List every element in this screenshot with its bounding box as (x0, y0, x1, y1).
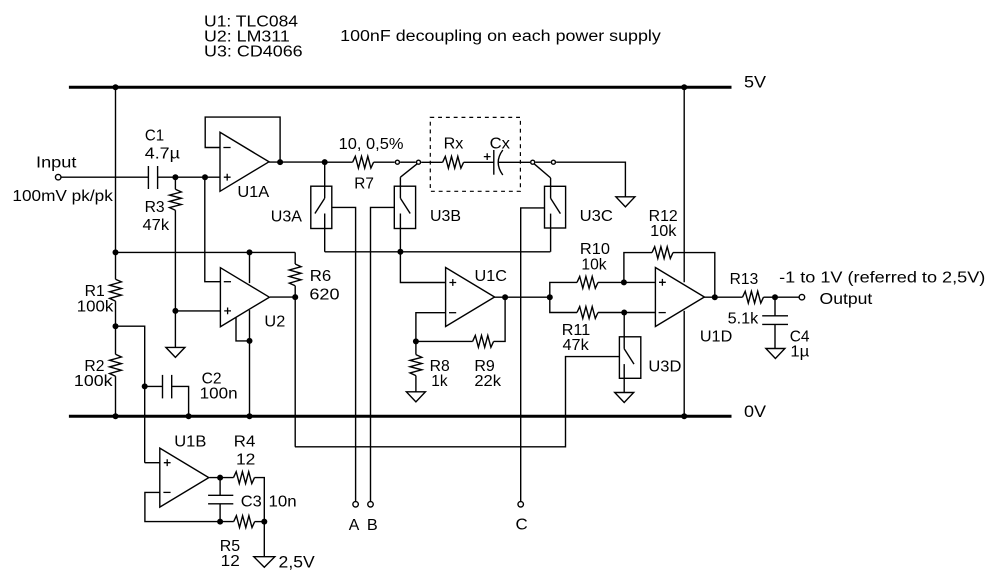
label R4 (234, 433, 256, 450)
label R3 (145, 199, 165, 216)
wire U2- to input node (205, 177, 221, 282)
svg-text:R4: R4 (234, 433, 256, 450)
resistor R11 (550, 297, 656, 318)
junction U1A+/U2- (202, 174, 208, 180)
svg-text:Output: Output (820, 291, 874, 308)
wire U1B- feedback (145, 492, 234, 521)
label Cx (490, 135, 511, 152)
label C2 (202, 370, 222, 387)
label terminal B (367, 517, 378, 534)
capacitor C2 (163, 375, 172, 399)
op-amp U1A (220, 132, 269, 191)
label R13 value 5.1k (728, 310, 759, 327)
svg-text:C: C (516, 517, 528, 534)
svg-text:U3A: U3A (271, 208, 303, 225)
resistor R12 (624, 247, 715, 298)
switch arm to U3B (400, 164, 417, 187)
label R1 value 100k (77, 298, 114, 315)
wire C2 right to 0V (172, 386, 189, 416)
wire U1B output (210, 477, 234, 479)
junction U2 out/R6 (292, 294, 298, 300)
wire R11 node to U3D (623, 313, 625, 337)
junction C2 tap (142, 383, 148, 389)
junction R10/R12 (621, 279, 627, 285)
wire Rx to Cx (464, 161, 494, 163)
wire R1 to R2 (115, 301, 117, 354)
svg-text:U2: U2 (264, 314, 285, 331)
resistor R4 (234, 472, 265, 522)
terminal B (368, 502, 374, 508)
resistor R3 (170, 177, 182, 210)
wire U1D power top (683, 89, 685, 283)
wire U2 power pin top (249, 252, 251, 283)
label U2 (264, 314, 285, 331)
label U3D (648, 358, 681, 375)
resistor R5 (234, 516, 265, 528)
wire U1C- branch (416, 313, 446, 342)
label U1A (237, 184, 270, 201)
junction divider/2.5V net row (113, 249, 119, 255)
label R13 (730, 271, 759, 288)
junction U1D power/0V (681, 413, 687, 419)
label U3 type (204, 44, 303, 61)
junction R3/U2+ (172, 308, 178, 314)
ground right of Cx (616, 197, 635, 207)
wire midpoint to C2/U1B (116, 326, 145, 463)
ground below C4 (766, 349, 785, 359)
svg-text:U3: CD4066: U3: CD4066 (204, 44, 303, 61)
analog switch U3C (545, 186, 566, 228)
contact circle left B (417, 160, 421, 164)
0V power rail (69, 415, 732, 418)
svg-text:R6: R6 (310, 268, 331, 285)
wire 2.5V to U1B+ (145, 462, 160, 464)
junction C2/0V (186, 413, 192, 419)
wire U3C control to C line (521, 208, 545, 501)
label net 5V (744, 72, 767, 91)
svg-text:B: B (367, 517, 378, 534)
wire U3D to ground (623, 378, 625, 392)
label input level 100mV pk/pk (12, 188, 113, 205)
svg-text:U3C: U3C (580, 208, 613, 225)
label U1C (475, 268, 507, 285)
contact circle right A (531, 160, 535, 164)
label R8 (430, 358, 450, 375)
junction U1A out/U3A (322, 159, 328, 165)
wire C1 to node (158, 176, 176, 178)
label R2 (84, 358, 104, 375)
resistor R1 (110, 279, 122, 301)
label Rx (444, 135, 464, 152)
note decoupling (340, 28, 661, 45)
wire U1C output (494, 296, 549, 298)
junction U1C output (502, 294, 508, 300)
label terminal C (516, 517, 528, 534)
resistor R6 (289, 252, 301, 297)
wire U3A control (332, 207, 356, 501)
resistor R10 (550, 277, 656, 298)
svg-text:47k: 47k (563, 337, 589, 354)
svg-text:5.1k: 5.1k (728, 310, 759, 327)
label C4 value 1µ (790, 344, 809, 361)
label R9 value 22k (474, 373, 501, 390)
label C4 (790, 328, 810, 345)
svg-text:U3B: U3B (430, 208, 461, 225)
wire U1A- feedback (205, 117, 280, 162)
junction R13/C4 (772, 294, 778, 300)
label U1B (174, 433, 206, 450)
wire input to C1 (61, 176, 148, 178)
wire U1D output (704, 296, 743, 298)
label C3 (241, 494, 262, 511)
junction C1/R3 (172, 174, 178, 180)
output terminal (799, 294, 805, 300)
svg-text:U1B: U1B (174, 433, 206, 450)
svg-text:100k: 100k (74, 373, 113, 390)
label R3 value 47k (143, 217, 170, 234)
svg-text:C3: C3 (241, 494, 262, 511)
capacitor C1 (148, 166, 157, 189)
wire net to U1C+ (400, 252, 445, 283)
wire U2 gnd stub (236, 318, 250, 341)
label U1D (700, 328, 732, 345)
analog switch U3A (311, 186, 332, 228)
wire U2 power pin bottom (249, 310, 251, 416)
label net 2,5V (279, 552, 316, 571)
wire contact to ground (556, 162, 625, 197)
junction U1A output (277, 159, 283, 165)
wire U3A bottom (324, 229, 326, 252)
ground below U3D (615, 393, 634, 403)
junction R4/R5/2.5V (261, 519, 267, 525)
label U2 type (204, 28, 290, 45)
ground below R8 (406, 392, 425, 402)
label R12 (649, 208, 678, 225)
junction U3B/net (397, 249, 403, 255)
svg-text:1µ: 1µ (790, 344, 809, 361)
svg-text:2,5V: 2,5V (279, 552, 316, 571)
svg-text:12: 12 (221, 553, 240, 570)
label R9 (474, 358, 494, 375)
junction U1B out/C3 (217, 475, 223, 481)
label U3B (430, 208, 461, 225)
svg-text:10k: 10k (650, 223, 677, 240)
svg-text:-1 to 1V (referred to 2,5V): -1 to 1V (referred to 2,5V) (779, 270, 985, 287)
svg-text:10k: 10k (581, 256, 606, 273)
label C2 value 100n (200, 386, 238, 403)
junction R11/U3D (621, 310, 627, 316)
label U3C (580, 208, 613, 225)
op-amp U2 (220, 268, 269, 327)
svg-text:100n: 100n (200, 386, 238, 403)
wire U3D control from U2 (295, 357, 620, 447)
dashed box device under test (430, 117, 520, 191)
resistor R13 (743, 291, 776, 303)
svg-text:U3D: U3D (648, 358, 681, 375)
svg-text:620: 620 (309, 287, 340, 304)
resistor R8 (410, 341, 422, 391)
junction U1D out/R12 (712, 294, 718, 300)
terminal C (518, 502, 524, 508)
svg-text:10, 0,5%: 10, 0,5% (339, 136, 404, 153)
label R7 (354, 175, 374, 192)
label C1 value 4.7µ (145, 145, 180, 162)
wire 5V to R1 top (115, 89, 117, 280)
junction U2 stub (247, 338, 253, 344)
resistor R9 (416, 297, 505, 347)
5V power rail (69, 86, 732, 89)
wire U1A node to U3A (324, 162, 326, 186)
svg-text:22k: 22k (474, 373, 501, 390)
wire between contacts (400, 161, 416, 163)
label R10 value 10k (581, 256, 606, 273)
op-amp U1D (655, 268, 704, 327)
junction U1C out branch (547, 294, 553, 300)
wire R2 to 0V (115, 376, 117, 416)
label R10 (580, 241, 610, 258)
svg-text:Input: Input (36, 154, 77, 171)
svg-text:47k: 47k (143, 217, 170, 234)
wire U3C bottom (550, 228, 552, 252)
svg-text:5V: 5V (744, 72, 767, 91)
label U1 type (204, 13, 298, 30)
label R1 (85, 283, 105, 300)
label R6 value 620 (309, 287, 340, 304)
label R2 value 100k (74, 373, 113, 390)
capacitor Cx (484, 150, 503, 175)
contact circle left A (395, 160, 399, 164)
svg-text:12: 12 (236, 452, 255, 469)
junction U2 power top (247, 249, 253, 255)
net rail switches to U1C+ (325, 251, 551, 253)
2.5V supply symbol (254, 557, 275, 568)
label R5 (220, 538, 240, 555)
wire U3B control (371, 207, 395, 501)
resistor R2 (110, 354, 122, 376)
op-amp U1B (160, 448, 209, 507)
svg-text:0V: 0V (744, 402, 767, 421)
svg-text:A: A (349, 517, 360, 534)
label net 0V (744, 402, 767, 421)
svg-text:100nF decoupling on each power: 100nF decoupling on each power supply (340, 28, 661, 45)
svg-text:4.7µ: 4.7µ (145, 145, 180, 162)
resistor Rx (443, 156, 464, 168)
wire R3 to U2+ node (174, 210, 176, 347)
label R6 (310, 268, 331, 285)
junction C3 bottom (217, 519, 223, 525)
label output range -1 to 1V (779, 270, 985, 287)
terminal A (353, 502, 359, 508)
contact circle right B (551, 160, 555, 164)
junction 5V/divider (113, 84, 119, 90)
svg-text:R7: R7 (354, 175, 374, 192)
net 2.5V row (116, 251, 296, 253)
label R7 value 10, 0,5% (339, 136, 404, 153)
label Output (820, 291, 874, 308)
svg-text:U1A: U1A (237, 184, 270, 201)
label R5 value 12 (221, 553, 240, 570)
label R11 value 47k (563, 337, 589, 354)
analog switch U3B (394, 186, 415, 228)
resistor R7 (325, 156, 395, 168)
input terminal (55, 174, 61, 180)
svg-text:Cx: Cx (490, 135, 511, 152)
wire Cx to contact (498, 161, 530, 163)
label U3A (271, 208, 303, 225)
wire U3B bottom (399, 229, 401, 252)
label R4 value 12 (236, 452, 255, 469)
ground below R3 (166, 347, 185, 357)
switch arm to U3C (534, 164, 551, 187)
wire U1D power bottom (683, 311, 685, 416)
junction U1D power/5V (681, 84, 687, 90)
capacitor C3 (208, 478, 233, 522)
label C1 (145, 128, 164, 145)
svg-text:100mV pk/pk: 100mV pk/pk (12, 188, 113, 205)
wire U2 output (270, 296, 295, 298)
svg-text:Rx: Rx (444, 135, 464, 152)
wire to output terminal (775, 296, 799, 298)
wire contact to Rx (421, 161, 442, 163)
svg-text:U1D: U1D (700, 328, 732, 345)
op-amp U1C (446, 268, 495, 327)
wire between right contacts (535, 161, 550, 163)
label R8 value 1k (431, 373, 448, 390)
label R11 (562, 322, 590, 339)
svg-text:R13: R13 (730, 271, 759, 288)
analog switch U3D (619, 337, 640, 379)
svg-text:1k: 1k (431, 373, 448, 390)
svg-text:C1: C1 (145, 128, 164, 145)
junction U2 power/0V (247, 413, 253, 419)
wire node to U1A+ (175, 176, 220, 178)
junction R2/0V (113, 413, 119, 419)
label R12 value 10k (650, 223, 677, 240)
svg-text:100k: 100k (77, 298, 114, 315)
wire U1A output (269, 161, 325, 163)
svg-text:10n: 10n (269, 494, 297, 511)
label C3 value 10n (269, 494, 297, 511)
svg-text:U1C: U1C (475, 268, 507, 285)
label terminal A (349, 517, 360, 534)
junction R1/R2 midpoint (113, 323, 119, 329)
wire to 2.5V symbol (263, 522, 265, 557)
wire C2 left (145, 385, 163, 387)
wire U2 out down to control row (294, 297, 296, 447)
junction R8/R9 (413, 338, 419, 344)
label Input (36, 154, 77, 171)
svg-text:R3: R3 (145, 199, 165, 216)
capacitor C4 (762, 297, 788, 348)
wire U2+ from R3 node (175, 310, 220, 312)
